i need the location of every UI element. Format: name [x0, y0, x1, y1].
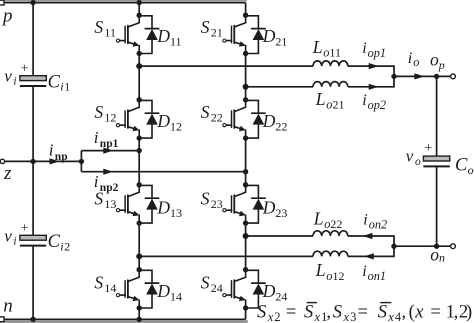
- arrow i_on2: [363, 233, 373, 239]
- capacitor Ci1: [20, 76, 46, 86]
- inductor Lo21: [313, 82, 348, 87]
- node leg2 upper output junction: [243, 84, 249, 90]
- svg-text:n: n: [3, 295, 13, 316]
- terminal op (open circle): [451, 74, 456, 79]
- svg-text:vi: vi: [4, 67, 16, 88]
- svg-text:S22: S22: [201, 102, 223, 125]
- svg-text:iop1: iop1: [362, 40, 386, 60]
- transistor S14 with antiparallel diode D14: [116, 267, 158, 311]
- svg-text:Co: Co: [455, 156, 474, 177]
- svg-text:iop2: iop2: [362, 92, 386, 112]
- overbar on first S-bar: [307, 302, 317, 304]
- terminal on (open circle): [451, 244, 456, 249]
- wire top rail (p bus): [0, 2, 246, 4]
- svg-text:vi: vi: [4, 226, 16, 247]
- svg-text:Lo12: Lo12: [315, 260, 345, 283]
- wire left dc-link rail: [32, 3, 34, 320]
- svg-text:D21: D21: [262, 26, 288, 48]
- svg-text:D13: D13: [156, 197, 182, 219]
- svg-text:S14: S14: [94, 272, 116, 295]
- node op junction: [391, 74, 396, 79]
- svg-text:S11: S11: [94, 17, 116, 40]
- svg-text:D11: D11: [156, 26, 181, 48]
- node leg2 lower output junction: [243, 233, 249, 239]
- transistor S24 with antiparallel diode D24: [223, 267, 265, 311]
- svg-text:Sx2=Sx1,Sx3=Sx4,(x=1,2): Sx2=Sx1,Sx3=Sx4,(x=1,2): [257, 303, 472, 323]
- wire Lo11 to op junction: [348, 66, 394, 76]
- node leg1 top junction: [137, 0, 142, 5]
- svg-text:p: p: [1, 5, 13, 26]
- svg-text:D24: D24: [262, 281, 288, 303]
- svg-text:ion1: ion1: [362, 263, 386, 283]
- node n junction on bottom rail: [30, 317, 35, 322]
- svg-text:D14: D14: [156, 281, 182, 303]
- wire op output lead: [394, 75, 451, 77]
- wire leg1 upper output: [139, 65, 313, 67]
- node on junction: [391, 244, 396, 249]
- inductor Lo22: [313, 231, 348, 236]
- capacitor Ci2: [20, 235, 46, 245]
- transistor S13 with antiparallel diode D13: [116, 182, 158, 226]
- arrow i_op2: [369, 84, 379, 90]
- svg-text:D22: D22: [262, 111, 288, 133]
- svg-text:D23: D23: [262, 197, 288, 219]
- bottom edge gray band: [0, 320, 248, 323]
- wire np splitter vertical: [80, 151, 82, 172]
- arrow i_o: [414, 73, 424, 79]
- terminal z (open circle): [0, 159, 4, 163]
- inductor Lo12: [313, 251, 348, 256]
- top edge gray band: [0, 0, 247, 1]
- svg-text:Lo22: Lo22: [313, 209, 343, 232]
- node leg1 lower output junction: [136, 253, 142, 259]
- node np splitter junction: [79, 159, 84, 164]
- wire i_np2 branch to leg2: [81, 171, 245, 173]
- svg-text:Lo21: Lo21: [315, 89, 345, 112]
- terminal p (clipped square): [0, 0, 4, 5]
- svg-text:vo: vo: [406, 147, 421, 168]
- transistor S11 with antiparallel diode D11: [116, 13, 158, 57]
- svg-text:S21: S21: [201, 17, 223, 40]
- svg-text:op: op: [430, 50, 445, 72]
- node leg1 upper output junction: [136, 63, 142, 69]
- svg-text:D12: D12: [156, 111, 182, 133]
- node z junction: [30, 159, 35, 164]
- svg-text:Lo11: Lo11: [312, 37, 341, 60]
- node p junction on top rail: [30, 0, 35, 5]
- svg-text:inp1: inp1: [94, 128, 119, 150]
- wire Lo12 to on junction: [348, 246, 394, 256]
- svg-text:S12: S12: [94, 102, 116, 125]
- arrow i_np2: [103, 169, 113, 175]
- overbar on second S-bar: [380, 302, 391, 304]
- svg-text:Ci1: Ci1: [48, 72, 71, 93]
- transistor S22 with antiparallel diode D22: [223, 97, 265, 141]
- terminal n (clipped square): [0, 317, 4, 322]
- svg-text:+: +: [424, 141, 432, 156]
- wire output filter-cap branch: [436, 76, 438, 246]
- node leg1 bottom junction: [137, 317, 142, 322]
- transistor S12 with antiparallel diode D12: [116, 97, 158, 141]
- arrow i_np: [50, 158, 60, 164]
- svg-text:Ci2: Ci2: [48, 232, 71, 253]
- svg-text:z: z: [3, 163, 12, 184]
- wire bottom rail (n bus): [0, 318, 246, 320]
- wire leg1 rail: [138, 3, 140, 320]
- svg-text:+: +: [21, 221, 29, 236]
- arrow i_on1: [364, 253, 374, 259]
- wire Lo22 to on junction: [348, 236, 394, 246]
- transistor S21 with antiparallel diode D21: [223, 13, 265, 57]
- svg-text:on: on: [430, 245, 445, 265]
- wire Lo21 to op junction: [348, 76, 394, 86]
- wire leg2 rail: [245, 3, 247, 320]
- wire leg2 upper output: [246, 86, 313, 88]
- svg-text:S24: S24: [201, 272, 223, 295]
- wire leg1 lower output: [139, 255, 313, 257]
- node Co bottom junction: [434, 244, 439, 249]
- svg-text:S23: S23: [201, 189, 223, 212]
- wire on output lead: [394, 245, 451, 247]
- transistor S23 with antiparallel diode D23: [223, 182, 265, 226]
- arrow i_op1: [369, 63, 379, 69]
- capacitor Co: [423, 156, 449, 166]
- wire z input lead: [4, 160, 81, 162]
- node Co top junction: [434, 74, 439, 79]
- svg-text:io: io: [408, 50, 420, 69]
- inductor Lo11: [313, 61, 348, 66]
- svg-text:ion2: ion2: [363, 212, 387, 232]
- arrow i_np1: [103, 148, 113, 154]
- wire i_np1 branch to leg1: [81, 150, 139, 152]
- node i_np1 junction on leg1: [137, 148, 142, 153]
- svg-text:+: +: [21, 62, 29, 77]
- wire leg2 lower output: [246, 235, 313, 237]
- node i_np2 junction on leg2: [243, 169, 248, 174]
